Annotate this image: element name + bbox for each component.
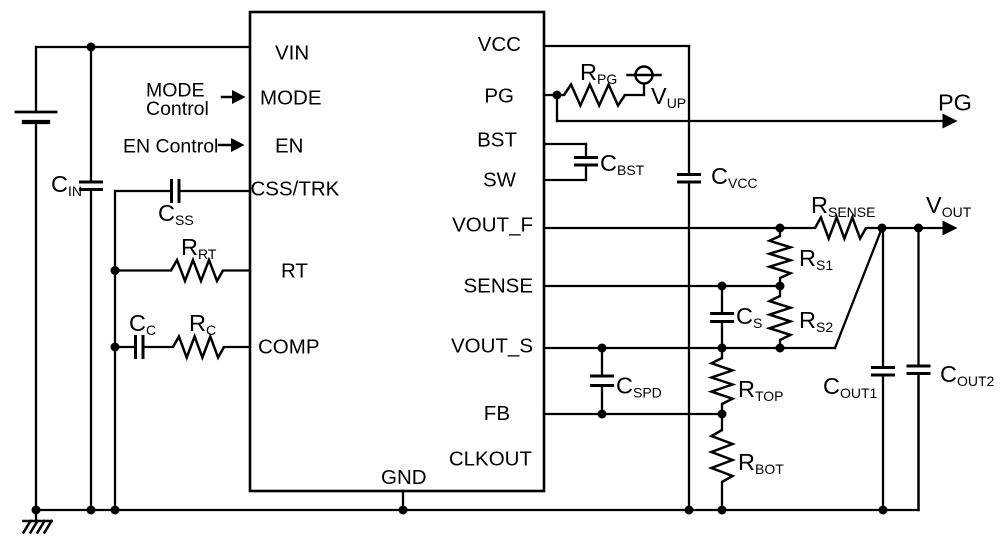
svg-text:VOUT_S: VOUT_S [451, 335, 533, 358]
capacitor CSS [172, 181, 180, 202]
wire GND pin stub [402, 491, 404, 510]
node ground rail CVCC [685, 506, 694, 515]
node VOUT_S junction RS2 [776, 344, 785, 353]
arrow PG output [943, 114, 958, 129]
pin label COMP [258, 336, 320, 359]
wire BST stub [544, 144, 586, 157]
node FB junction CSPD [598, 410, 607, 419]
label RSENSE [811, 192, 875, 220]
wire left bias branch vertical [114, 191, 116, 510]
battery V_IN source short plate [24, 120, 48, 124]
node ground rail GND pin [399, 506, 408, 515]
svg-text:Control: Control [146, 98, 209, 120]
pin label VIN [275, 42, 309, 65]
label CC [129, 310, 156, 338]
wire PG arrow horizontal [557, 120, 943, 122]
pin label FB [484, 402, 510, 425]
wire VCC rail lower [688, 183, 690, 511]
svg-text:VCC: VCC [478, 33, 521, 56]
svg-text:MODE: MODE [260, 87, 322, 110]
node ground rail bias branch [111, 506, 120, 515]
resistor RRT [171, 260, 223, 281]
resistor RPG [564, 85, 625, 106]
label EN Control [123, 136, 218, 158]
pin label CSS/TRK [251, 178, 340, 201]
pin label VOUT_F [452, 214, 533, 237]
pin label EN [275, 135, 303, 158]
capacitor CS [712, 286, 733, 348]
node VOUT_F junction RS1 [776, 224, 785, 233]
svg-text:EN Control: EN Control [123, 136, 218, 158]
wire VOUT node to COUT2 [882, 227, 919, 229]
arrow VOUT output [943, 221, 958, 236]
pin label GND [381, 466, 427, 489]
label PG net [938, 90, 972, 116]
svg-text:PG: PG [938, 90, 972, 116]
label VOUT net [926, 192, 972, 220]
arrow EN control input [219, 138, 245, 152]
node SENSE junction RS1 RS2 [776, 282, 785, 291]
svg-text:CLKOUT: CLKOUT [449, 448, 533, 471]
node ground rail COUT1 [879, 506, 888, 515]
pin label VOUT_S [451, 335, 533, 358]
capacitor CIN [81, 47, 102, 510]
node ground rail RBOT [718, 506, 727, 515]
pin label SENSE [464, 275, 534, 298]
pin label CLKOUT [449, 448, 533, 471]
label CVCC [711, 163, 758, 191]
wire CSS row left [115, 190, 171, 192]
wire remote sense diagonal [835, 228, 882, 348]
svg-text:CSS/TRK: CSS/TRK [251, 178, 340, 201]
label RBOT [738, 449, 784, 477]
wire VIN rail top [36, 46, 250, 48]
wire CC to RC [144, 346, 174, 348]
wire RPG to VUP [625, 84, 644, 95]
wire SW stub [544, 166, 586, 181]
label RRT [181, 234, 217, 262]
arrow MODE control input [222, 90, 246, 104]
wire RSENSE left lead [780, 227, 815, 229]
wire RSENSE right lead [866, 227, 882, 229]
resistor RC [173, 337, 224, 358]
pin label BST [477, 129, 517, 152]
wire battery bottom lead [35, 122, 37, 510]
wire PG stub [544, 94, 557, 96]
resistor RSENSE [815, 218, 866, 239]
label RTOP [738, 376, 784, 404]
wire SENSE row [544, 285, 780, 287]
wire battery top lead [35, 47, 37, 112]
wire FB row [544, 413, 722, 415]
svg-text:FB: FB [484, 402, 510, 425]
capacitor CVCC [679, 175, 700, 183]
label CIN [51, 171, 82, 199]
label RS2 [799, 307, 833, 335]
node VOUT_S junction CSPD [598, 344, 607, 353]
pin label VCC [478, 33, 521, 56]
voltage source VUP symbol [628, 67, 661, 84]
pin label MODE [260, 87, 322, 110]
svg-text:VOUT_F: VOUT_F [452, 214, 533, 237]
wire VCC rail upper [688, 46, 690, 174]
ground symbol [24, 510, 52, 533]
svg-text:PG: PG [484, 85, 514, 108]
resistor RBOT [712, 414, 733, 510]
svg-text:SW: SW [483, 169, 517, 192]
wire RT row left [115, 269, 171, 271]
wire VOUT_S row [544, 347, 835, 349]
wire COMP row left [115, 346, 135, 348]
svg-text:RT: RT [281, 260, 308, 283]
battery V_IN source long plate [16, 111, 56, 114]
label VUP [651, 83, 686, 111]
wire ground rail [36, 509, 919, 511]
wire RT row right [223, 269, 250, 271]
capacitor CBST [576, 158, 597, 166]
pin label PG [484, 85, 514, 108]
wire PG arrow vertical [556, 95, 558, 121]
label CBST [600, 150, 645, 178]
label COUT2 [940, 361, 995, 389]
svg-text:GND: GND [381, 466, 427, 489]
svg-text:EN: EN [275, 135, 303, 158]
resistor RS1 [770, 228, 791, 286]
wire VCC to rail [544, 45, 689, 47]
node VIN junction at CIN branch [87, 43, 96, 52]
resistor RTOP [712, 348, 733, 414]
node ground rail CIN [87, 506, 96, 515]
label RS1 [799, 245, 833, 273]
node FB junction RTOP RBOT [718, 410, 727, 419]
node ground rail battery [32, 506, 41, 515]
node COMP junction [111, 343, 120, 352]
capacitor COUT1 [873, 228, 894, 510]
node PG junction [553, 91, 562, 100]
label MODE Control [146, 80, 209, 121]
pin label SW [483, 169, 517, 192]
resistor RS2 [770, 286, 791, 348]
node RT junction [111, 266, 120, 275]
label CSS [158, 200, 194, 228]
node VOUT_S junction RTOP [718, 344, 727, 353]
svg-text:COMP: COMP [258, 336, 320, 359]
wire CSS row right [180, 190, 251, 192]
label RPG [580, 59, 617, 87]
wire COUT2 rail riser [917, 374, 919, 510]
capacitor COUT2 [908, 228, 929, 510]
label CSPD [616, 373, 662, 401]
svg-text:VIN: VIN [275, 42, 309, 65]
node SENSE junction CS [718, 282, 727, 291]
node COUT2 top junction [914, 224, 923, 233]
wire VOUT_F row [544, 227, 780, 229]
wire PG to RPG [557, 94, 564, 96]
capacitor CSPD [592, 348, 613, 414]
wire VOUT arrow [918, 227, 943, 229]
wire COMP row right [224, 346, 250, 348]
svg-text:SENSE: SENSE [464, 275, 534, 298]
label RC [189, 310, 216, 338]
svg-text:BST: BST [477, 129, 517, 152]
label CS [736, 303, 762, 331]
op-amp U1 regulator IC body [250, 12, 544, 491]
capacitor CC [136, 337, 144, 358]
pin label RT [281, 260, 308, 283]
node VOUT node [878, 224, 887, 233]
label COUT1 [823, 373, 878, 401]
